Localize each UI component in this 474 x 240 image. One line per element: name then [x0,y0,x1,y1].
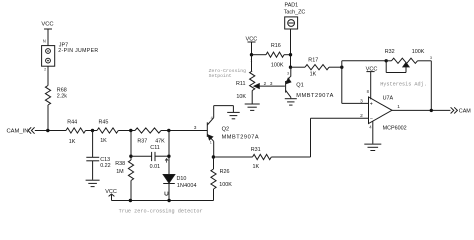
wire rail to C11 node [130,131,132,161]
wire PAD1 down to node [290,29,292,67]
svg-text:2-PIN JUMPER: 2-PIN JUMPER [58,48,98,54]
svg-text:Q1: Q1 [296,82,303,88]
svg-text:100K: 100K [412,49,425,55]
pin C marker (diode cathode) [165,192,168,196]
net label N [43,38,46,43]
svg-text:1K: 1K [100,138,107,144]
svg-text:0.01: 0.01 [150,164,161,170]
svg-text:100K: 100K [219,182,232,188]
resistor R38 1M [115,160,133,181]
svg-text:PAD1: PAD1 [285,3,299,9]
node junction R68/rail [46,129,49,132]
svg-text:3: 3 [360,98,363,104]
svg-text:1K: 1K [310,71,317,77]
svg-text:MCP6002: MCP6002 [383,126,407,132]
wire Q2 emitter down [213,141,215,157]
node junction R38/bottom rail [129,199,132,202]
connector CAM_ZC output [451,107,472,114]
node junction C11 right [167,155,170,158]
svg-text:R17: R17 [308,57,318,63]
svg-text:U7A: U7A [383,96,394,102]
svg-text:47K: 47K [155,138,165,144]
ground (below C13) [86,180,100,186]
svg-text:1N4004: 1N4004 [177,183,197,189]
svg-text:CAM: CAM [459,109,471,115]
svg-text:C11: C11 [150,145,160,151]
svg-text:3: 3 [194,125,197,131]
svg-text:True zero-crossing detector: True zero-crossing detector [119,208,203,214]
node junction R16/PAD1 [289,53,292,56]
resistor R16 100K [252,43,291,69]
svg-text:Tach_ZC: Tach_ZC [284,9,306,15]
svg-text:R45: R45 [99,120,109,126]
annotation zero-crossing setpoint [209,68,247,79]
svg-text:D10: D10 [177,176,187,182]
wire Q2 collector to ground [214,105,234,107]
node junction R32 wiper/left end [385,59,388,62]
svg-text:+: + [370,102,373,108]
svg-text:R31: R31 [251,147,261,153]
ground (op-amp) [364,144,381,150]
resistor R17 1K [290,57,342,77]
node junction R17/R32/non-inverting [340,66,343,69]
svg-text:1K: 1K [253,164,260,170]
resistor R45 1K [97,120,118,144]
node junction output/feedback [430,109,433,112]
node junction C13 [91,129,94,132]
svg-text:3: 3 [270,81,273,86]
resistor R37 47K [135,128,165,144]
wire CAM_IN to R44 [35,130,66,132]
resistor R26 100K [211,157,232,201]
node junction VCC/R16/R11 [250,53,253,56]
wire node to non-inverting input [342,67,369,103]
ground (below Q1) [285,99,297,105]
svg-text:R11: R11 [236,81,246,87]
connector CAM_IN [7,127,35,134]
svg-text:1M: 1M [116,169,124,175]
wire R11 to ground [251,91,253,104]
svg-text:100K: 100K [271,63,284,69]
svg-text:2.2k: 2.2k [57,94,67,100]
svg-text:CAM_IN: CAM_IN [7,128,29,134]
jumper JP7 2-PIN JUMPER [42,43,99,72]
resistor R44 1K [66,120,86,145]
svg-text:R16: R16 [271,43,281,49]
wire D10 to bottom rail [168,184,170,201]
svg-text:R26: R26 [220,169,230,175]
svg-text:N: N [43,38,46,43]
wire C13 to ground [92,161,94,180]
svg-text:1: 1 [397,104,400,110]
wire R44 to node [86,130,98,132]
power VCC symbol (top left) [41,21,53,45]
resistor R68 2.2k [45,86,67,106]
wire node up to feedback line [342,61,386,67]
diode D10 1N4004 [163,175,196,189]
svg-text:3: 3 [430,56,432,60]
svg-text:0.22: 0.22 [100,163,111,169]
node junction C11 left [129,155,132,158]
node junction Q2/R31/R26 [212,155,215,158]
wire R68 to rail [47,105,49,131]
annotation true zero-crossing detector [119,208,203,214]
potentiometer R11 10K [236,55,285,100]
pin 3 label Q2 base [194,125,197,131]
transistor Q2 MMBT2907A [207,116,259,145]
svg-text:MMBT2907A: MMBT2907A [222,134,260,140]
pin 1 label R11 [250,58,252,62]
wire ground stub Q2 [232,106,234,113]
annotation hysteresis adj [380,82,427,88]
potentiometer R32 100K [385,49,432,72]
svg-text:3: 3 [287,72,289,76]
power VCC symbol (setpoint) [245,37,257,55]
wire rail to C13 [92,131,94,158]
svg-text:Setpoint: Setpoint [209,73,232,79]
svg-text:1K: 1K [69,139,76,145]
svg-text:VCC: VCC [41,21,53,27]
wire R38 to bottom rail [130,181,132,201]
node junction D10/bottom rail [167,199,170,202]
svg-text:MMBT2907A: MMBT2907A [296,93,334,99]
node junction Q1/R17/PAD1 [289,66,292,69]
svg-text:Hysteresis Adj.: Hysteresis Adj. [380,82,427,88]
svg-text:R44: R44 [67,120,77,126]
transistor Q1 MMBT2907A [286,72,334,99]
svg-text:2: 2 [264,81,267,86]
svg-text:1: 1 [210,141,212,145]
wire Q2 node to R31 [213,156,252,158]
pad PAD1 Tach_ZC [284,3,306,29]
svg-text:R37: R37 [137,138,147,144]
wire R45 to node [118,130,135,132]
wire Q1 emitter up [290,67,292,76]
wire R31 to op-amp inverting input [271,118,368,157]
power VCC symbol (op-amp) [366,66,378,99]
node junction D10 branch [167,129,170,132]
wire op-amp output [392,109,450,111]
resistor R31 1K [251,147,272,170]
svg-text:R38: R38 [115,161,125,167]
wire Q1 collector stub [290,97,292,98]
wire R37 to Q2 base [161,130,207,132]
svg-text:2: 2 [44,68,46,72]
svg-text:2: 2 [360,113,363,119]
op-amp U7A MCP6002 [360,89,406,131]
wire bottom rail [112,200,214,202]
ground (below R11) [245,104,260,110]
wire JP7 to R68 [47,66,49,85]
svg-text:R32: R32 [385,49,395,55]
svg-text:10K: 10K [236,94,246,100]
capacitor C11 0.01 [131,145,169,170]
wire R32 right down to output [430,61,432,111]
node junction R38/C11 branch [129,129,132,132]
ground (Q2 collector) [227,112,240,118]
wire Q2 collector up [213,106,215,118]
capacitor C13 0.22 [86,157,110,169]
pin A marker (diode anode) [165,159,168,163]
svg-text:Q2: Q2 [222,126,229,132]
svg-text:4: 4 [211,116,213,120]
wire op-amp pin4 to ground [372,121,374,144]
wire rail to D10 [168,131,170,175]
power VCC symbol (bottom rail) [105,189,117,200]
